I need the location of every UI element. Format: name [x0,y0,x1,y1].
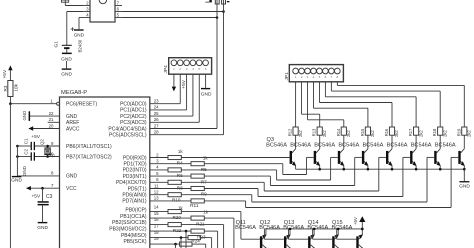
svg-text:26: 26 [154,117,159,122]
svg-text:PD4(XCK/T0): PD4(XCK/T0) [116,180,147,186]
svg-text:+5V: +5V [181,79,187,88]
svg-text:+5V: +5V [32,193,41,199]
svg-text:GND: GND [22,166,27,176]
svg-text:AREF: AREF [66,120,79,126]
svg-text:PD1(TXD): PD1(TXD) [123,162,146,168]
svg-text:BC546A: BC546A [387,143,408,149]
svg-text:PB2(SS/OC1B): PB2(SS/OC1B) [112,220,147,226]
svg-text:PC1(ADC1): PC1(ADC1) [120,108,147,114]
svg-text:2k2: 2k2 [370,130,375,137]
svg-text:+5V: +5V [2,69,8,78]
svg-text:25: 25 [154,111,159,116]
svg-text:22: 22 [49,111,54,116]
svg-text:2k2: 2k2 [322,130,327,137]
svg-text:PD5(T1): PD5(T1) [128,186,147,192]
svg-text:AVCC: AVCC [66,126,80,132]
svg-text:14: 14 [154,205,159,210]
svg-text:G1: G1 [54,41,60,48]
svg-text:R5: R5 [201,167,207,172]
svg-text:BC546A: BC546A [283,225,304,231]
svg-text:BC546A: BC546A [411,143,432,149]
svg-text:GND: GND [22,111,27,121]
svg-text:R10: R10 [172,198,181,203]
svg-text:PD2(INT0): PD2(INT0) [123,168,147,174]
svg-text:MEGA8-P: MEGA8-P [61,90,87,96]
svg-text:R8: R8 [177,186,183,191]
svg-text:PD7(AIN1): PD7(AIN1) [122,199,147,205]
svg-text:JP1: JP1 [284,72,290,81]
svg-text:PC6(/RESET): PC6(/RESET) [66,102,97,108]
svg-text:10k: 10k [14,83,19,91]
svg-text:R12: R12 [288,128,293,136]
svg-text:27: 27 [154,123,159,128]
svg-text:PB0(ICP): PB0(ICP) [125,208,146,214]
svg-text:R11: R11 [190,203,199,209]
svg-text:PC0(ADC0): PC0(ADC0) [120,102,147,108]
svg-text:Q2: Q2 [40,139,45,145]
svg-text:BC546A: BC546A [266,143,287,149]
svg-text:R18: R18 [432,128,437,136]
svg-text:BC546A: BC546A [338,143,359,149]
svg-text:BC546A: BC546A [235,225,256,231]
svg-text:R21: R21 [196,221,205,226]
svg-text:11: 11 [154,183,159,188]
svg-text:R24: R24 [191,238,200,243]
svg-text:PB3(MOSI/OC2): PB3(MOSI/OC2) [109,227,147,233]
svg-text:PC2(ADC2): PC2(ADC2) [120,114,147,120]
svg-text:PC5(ADC5/SCL): PC5(ADC5/SCL) [109,133,147,139]
svg-text:PB7(XTAL2/TOSC2): PB7(XTAL2/TOSC2) [66,154,112,160]
svg-text:GND: GND [201,92,212,98]
svg-text:R4: R4 [177,161,183,166]
svg-text:PB1(OC1A): PB1(OC1A) [120,214,147,220]
svg-text:BC546A: BC546A [259,225,280,231]
svg-text:GND: GND [11,178,22,184]
svg-text:R22: R22 [173,228,182,233]
svg-text:PB6(XTAL1/TOSC1): PB6(XTAL1/TOSC1) [66,144,112,150]
svg-text:BC546A: BC546A [314,143,335,149]
svg-text:R9: R9 [201,192,207,197]
svg-text:PB4(MISO): PB4(MISO) [121,233,147,239]
svg-text:2k2: 2k2 [418,130,423,137]
svg-text:R16: R16 [384,128,389,136]
svg-text:R19: R19 [456,128,461,136]
svg-text:23: 23 [154,99,159,104]
svg-text:R17: R17 [408,128,413,136]
svg-text:21: 21 [49,117,54,122]
svg-text:7p: 7p [50,152,55,157]
svg-text:C1: C1 [24,138,29,144]
svg-text:C2: C2 [24,148,29,154]
svg-text:BC546A: BC546A [290,143,311,149]
svg-text:PD3(INT1): PD3(INT1) [123,174,147,180]
svg-text:R20: R20 [172,215,181,220]
svg-text:JP4: JP4 [163,65,169,74]
svg-text:GND: GND [37,225,48,231]
svg-text:R14: R14 [336,128,341,136]
svg-text:BC546A: BC546A [332,225,353,231]
svg-text:C3: C3 [46,194,53,200]
svg-text:BC546A: BC546A [307,225,328,231]
svg-text:GND: GND [66,174,78,180]
svg-text:R3: R3 [3,85,8,91]
svg-text:PD0(RXD): PD0(RXD) [123,155,147,161]
svg-text:PC3(ADC3): PC3(ADC3) [120,120,147,126]
svg-text:2k2: 2k2 [394,130,399,137]
svg-text:2k2: 2k2 [442,130,447,137]
svg-text:+5V: +5V [353,217,358,225]
svg-text:19: 19 [154,236,159,241]
svg-text:GND: GND [74,33,85,38]
svg-text:28: 28 [154,130,159,135]
svg-text:Q3: Q3 [267,137,274,143]
svg-text:2k2: 2k2 [346,130,351,137]
svg-text:R13: R13 [312,128,317,136]
svg-text:PD6(AIN0): PD6(AIN0) [122,193,147,199]
svg-text:R6: R6 [177,173,183,178]
svg-text:2k2: 2k2 [467,130,472,137]
svg-text:PB5(SCK): PB5(SCK) [123,239,146,245]
svg-text:24: 24 [154,105,159,110]
svg-text:PC4(ADC4/SDA): PC4(ADC4/SDA) [108,126,146,132]
svg-text:GND: GND [66,114,78,120]
svg-text:18: 18 [154,230,159,235]
svg-text:GND: GND [61,72,72,78]
svg-text:12: 12 [154,190,159,195]
svg-text:B2430: B2430 [78,39,83,52]
svg-text:GND: GND [459,184,470,190]
svg-text:2k2: 2k2 [298,130,303,137]
svg-text:R7: R7 [201,179,207,184]
svg-text:20: 20 [49,123,54,128]
svg-text:BC546A: BC546A [363,143,384,149]
svg-text:1k: 1k [178,149,184,154]
svg-text:1k: 1k [203,210,209,215]
svg-text:13: 13 [154,196,159,201]
svg-text:VCC: VCC [66,186,77,192]
svg-text:R15: R15 [360,128,365,136]
svg-text:BC546A: BC546A [435,143,456,149]
svg-text:1k: 1k [178,206,184,211]
